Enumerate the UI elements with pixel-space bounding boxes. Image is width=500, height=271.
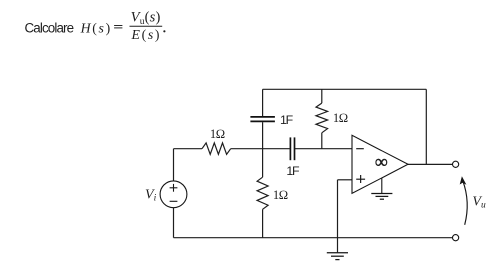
svg-text:Calcolare: Calcolare [25, 20, 75, 35]
svg-text:1Ω: 1Ω [210, 127, 225, 141]
Vu arrow [460, 176, 468, 225]
ground at bottom rail [327, 253, 348, 260]
svg-text:Vi: Vi [145, 187, 157, 203]
wire: feedback down to output row [425, 89, 427, 164]
ground at op-amp [371, 178, 392, 199]
wire: main input row from Vi to resistor R1 [174, 148, 203, 150]
op-amp U1 plus sign [356, 175, 365, 183]
wire: Vi bottom lead down to bottom row [173, 208, 175, 238]
svg-text:1Ω: 1Ω [273, 188, 288, 202]
wire: capacitor C2 right plate to op-amp inverting input [295, 148, 352, 150]
svg-text:E(s): E(s) [131, 27, 160, 43]
wire: top row down to resistor R3 [321, 89, 323, 103]
op-amp U1 minus sign [356, 148, 364, 150]
svg-text:1F: 1F [286, 164, 300, 178]
resistor R2 1ohm vertical lower [257, 177, 268, 209]
output terminal bottom [453, 235, 459, 241]
caption trailing period [163, 30, 165, 32]
wire: non-inverting node down through bottom row to ground [337, 180, 339, 253]
wire: Vi top lead up to main input row [173, 149, 175, 181]
wire: non-inverting input stub [338, 179, 353, 181]
svg-text:Vu(s): Vu(s) [131, 10, 161, 27]
wire: bottom row [174, 237, 453, 239]
capacitor C1 1F (vertical branch, horizontal plates) [250, 117, 275, 122]
output terminal top [453, 161, 459, 167]
wire: R2 bottom to bottom row [262, 209, 264, 237]
capacitor C2 1F (series, vertical plates) [290, 137, 294, 160]
wire: R1 to node A (with junction at x=262.7) up to capacitor C2 left plate [231, 148, 290, 150]
wire: node A up to capacitor C1 bottom plate [262, 122, 264, 149]
wire: node A down to resistor R2 [262, 149, 264, 178]
caption equals sign [114, 26, 122, 28]
wire: R3 bottom to inverting input row [321, 133, 323, 149]
resistor R3 1ohm vertical upper [316, 103, 328, 133]
wire: top feedback row [263, 88, 427, 90]
svg-text:1Ω: 1Ω [333, 111, 348, 125]
wire: op-amp output to top terminal [408, 163, 453, 165]
svg-text:Vu: Vu [472, 194, 486, 210]
wire: capacitor C1 top plate up to top feedback wire [262, 89, 264, 116]
svg-text:∞: ∞ [375, 152, 388, 172]
svg-text:1F: 1F [280, 113, 294, 127]
resistor R1 1ohm horizontal [202, 143, 231, 154]
caption fraction bar [130, 25, 163, 27]
svg-text:H(s): H(s) [80, 20, 111, 36]
op-amp U1 [352, 135, 408, 193]
voltage source Vi [160, 181, 187, 208]
